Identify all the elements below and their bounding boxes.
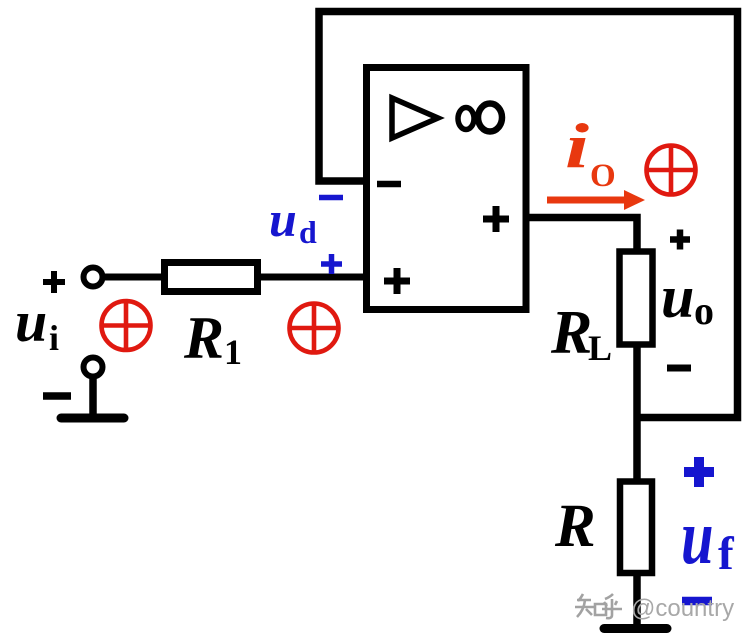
svg-text:L: L xyxy=(588,328,612,368)
svg-text:R: R xyxy=(554,493,596,560)
phase symbol 3 (circled plus, red) xyxy=(647,146,696,195)
svg-text:i: i xyxy=(565,111,589,182)
svg-text:o: o xyxy=(694,288,714,333)
- sign (uo polarity bottom) xyxy=(667,365,691,372)
wire R1 to non-inverting input xyxy=(257,274,365,281)
+ sign blue (u_d polarity at non-inverting input) xyxy=(321,254,342,274)
+ sign non-inverting input (inside box) xyxy=(384,268,410,294)
phase symbol 2 (circled plus, red) xyxy=(290,304,339,353)
- sign at input xyxy=(43,392,71,400)
input terminal upper (open circle) xyxy=(84,268,103,287)
svg-text:u: u xyxy=(681,494,714,580)
- sign inverting input (inside box) xyxy=(377,181,401,188)
resistor R1 xyxy=(165,263,258,292)
wire input terminal to R1 xyxy=(103,274,166,281)
+ sign blue (uf polarity top) xyxy=(684,457,714,487)
+ sign output (inside box) xyxy=(483,206,509,232)
svg-text:u: u xyxy=(15,289,47,354)
phase symbol 1 (circled plus, red) xyxy=(102,301,151,350)
- sign blue (u_d polarity at inverting input) xyxy=(319,195,343,201)
svg-text:u: u xyxy=(661,264,694,330)
svg-text:@country: @country xyxy=(631,595,734,622)
svg-text:d: d xyxy=(299,214,317,250)
ground (bottom right) xyxy=(604,624,667,633)
resistor R xyxy=(620,482,652,574)
wire RL bottom to R top xyxy=(633,344,641,484)
svg-text:1: 1 xyxy=(224,332,242,372)
+ sign at input xyxy=(43,271,65,293)
svg-text:u: u xyxy=(269,191,297,247)
svg-text:R: R xyxy=(183,305,224,371)
watermark zhihu glyphs xyxy=(575,594,622,618)
input terminal lower (open circle) xyxy=(84,358,103,377)
wire op-amp output to load node xyxy=(526,218,637,257)
current arrow io (red) xyxy=(547,197,627,204)
wire feedback loop from output node to inverting input xyxy=(319,12,738,418)
wire lower input terminal to ground xyxy=(89,374,97,417)
+ sign (uo polarity top) xyxy=(670,230,690,250)
- sign blue (uf polarity bottom) xyxy=(682,597,712,606)
svg-text:i: i xyxy=(49,318,59,358)
infinity gain symbol xyxy=(458,104,502,132)
resistor RL xyxy=(620,252,653,345)
wire R bottom to ground xyxy=(633,574,641,627)
ground (input side) xyxy=(61,414,124,423)
op-amp triangle symbol xyxy=(392,98,438,138)
svg-text:O: O xyxy=(590,158,616,194)
op-amp U1 box xyxy=(367,68,527,310)
svg-text:R: R xyxy=(550,299,592,367)
svg-text:f: f xyxy=(718,528,735,580)
